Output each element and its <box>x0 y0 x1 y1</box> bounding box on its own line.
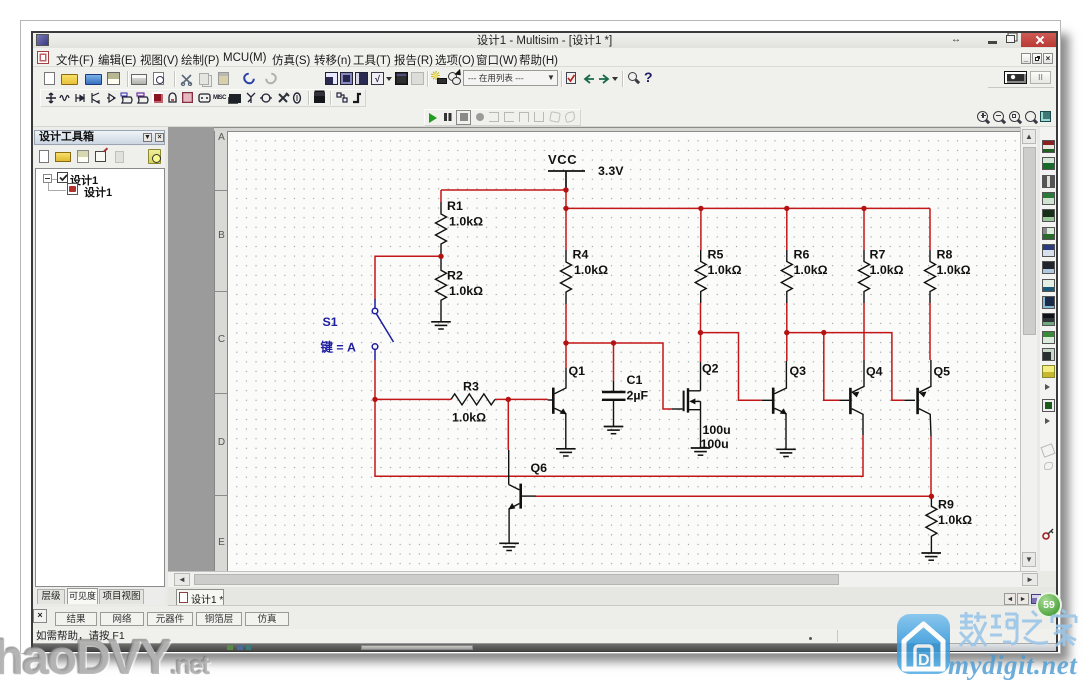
svg-text:Q1: Q1 <box>569 364 586 378</box>
码 <box>990 614 1017 644</box>
resistor R4 <box>561 250 572 304</box>
resistor R8 <box>925 250 936 303</box>
svg-text:键 = A: 键 = A <box>320 340 357 355</box>
transistor Q3 <box>762 361 787 449</box>
resistor R6 <box>781 250 792 303</box>
wire node row to Q5 base <box>787 333 905 401</box>
ground under C1 <box>604 427 624 434</box>
transistor Q4 <box>839 360 864 435</box>
svg-text:1.0kΩ: 1.0kΩ <box>870 263 904 277</box>
svg-text:1.0kΩ: 1.0kΩ <box>574 263 608 277</box>
svg-text:1.0kΩ: 1.0kΩ <box>938 513 972 527</box>
svg-text:Q4: Q4 <box>866 365 883 379</box>
wire R6 bottom / Q3 collector <box>786 303 788 361</box>
svg-text:Q2: Q2 <box>702 362 719 376</box>
svg-text:R7: R7 <box>870 248 886 262</box>
ground under Q6 <box>499 543 519 550</box>
svg-text:R4: R4 <box>573 248 589 262</box>
toolbar row1 icons <box>0 0 1 1</box>
svg-text:R6: R6 <box>794 248 810 262</box>
resistor R9 <box>926 496 937 553</box>
wire node to Q6 collector <box>507 399 509 450</box>
transistor Q2 (MOSFET) <box>672 362 701 448</box>
mydigit watermark logo <box>890 608 1088 681</box>
titlebar minimize <box>988 41 997 44</box>
wire Q6 base to R9 node <box>536 495 931 497</box>
数 <box>960 612 986 646</box>
svg-text:1.0kΩ: 1.0kΩ <box>449 215 483 229</box>
svg-text:R8: R8 <box>937 248 953 262</box>
transistor Q5 <box>904 360 931 436</box>
wire node to Q4 base <box>824 333 840 401</box>
ground under Q1 <box>556 449 576 456</box>
resistor R1 <box>436 202 447 256</box>
wire Q5 collector to R9 node <box>930 436 932 496</box>
wire R8 bottom to Q5 emitter <box>929 303 931 360</box>
svg-text:S1: S1 <box>323 315 338 329</box>
svg-text:1.0kΩ: 1.0kΩ <box>708 263 742 277</box>
ground under R2 <box>431 322 451 329</box>
之 <box>1022 611 1048 643</box>
resistor R2 <box>436 256 447 322</box>
junction dots <box>372 187 934 499</box>
wire R5 bottom / Q2 drain <box>700 303 702 362</box>
svg-text:1.0kΩ: 1.0kΩ <box>452 411 486 425</box>
transistor Q1 <box>548 368 566 449</box>
svg-text:R9: R9 <box>938 498 954 512</box>
titlebar restore <box>1006 35 1015 43</box>
svg-text:R5: R5 <box>708 248 724 262</box>
家 <box>1052 610 1076 646</box>
resistor R7 <box>859 250 870 303</box>
svg-text:1.0kΩ: 1.0kΩ <box>794 263 828 277</box>
switch S1 <box>372 299 393 360</box>
svg-text:R1: R1 <box>447 199 463 213</box>
MDI window buttons <box>1021 53 1031 64</box>
transistor Q6 <box>509 450 536 543</box>
svg-text:2µF: 2µF <box>627 389 649 403</box>
wire resistor top leads <box>441 190 930 250</box>
title bar app icon <box>36 34 49 46</box>
svg-text:1.0kΩ: 1.0kΩ <box>937 263 971 277</box>
svg-text:VCC: VCC <box>548 152 577 167</box>
svg-text:1.0kΩ: 1.0kΩ <box>449 284 483 298</box>
svg-text:Q5: Q5 <box>934 365 951 379</box>
sim toolbar <box>0 0 1 1</box>
svg-text:100u: 100u <box>703 423 731 437</box>
resistor R3 <box>451 394 495 405</box>
ground under Q2 <box>691 448 711 455</box>
power VCC <box>548 171 585 190</box>
svg-text:3.3V: 3.3V <box>598 164 624 178</box>
titlebar touch-mode arrows <box>951 35 963 44</box>
wire R7 bottom to Q4 emitter <box>863 303 865 360</box>
wire R4 bottom node <box>566 304 672 409</box>
wire node to Q3 base <box>701 333 762 401</box>
wire S1 to Q4 collector long run <box>375 399 863 476</box>
toolbar row2 icons <box>0 0 1 1</box>
wire VCC rail <box>375 190 931 496</box>
menu bar doc icon <box>37 51 49 64</box>
svg-text:R3: R3 <box>463 380 479 394</box>
capacitor C1 <box>602 381 626 426</box>
wire switch to R3 row <box>375 360 548 399</box>
svg-text:C1: C1 <box>627 373 643 387</box>
ground under Q3 <box>776 449 796 456</box>
sheet border letters <box>214 190 228 191</box>
wire R1-R2 node to switch <box>375 256 441 299</box>
ground under R9 <box>921 553 941 560</box>
svg-text:Q6: Q6 <box>531 461 548 475</box>
svg-text:100u: 100u <box>701 437 729 451</box>
resistor R5 <box>695 250 706 303</box>
svg-text:R2: R2 <box>447 269 463 283</box>
svg-text:Q3: Q3 <box>790 364 807 378</box>
